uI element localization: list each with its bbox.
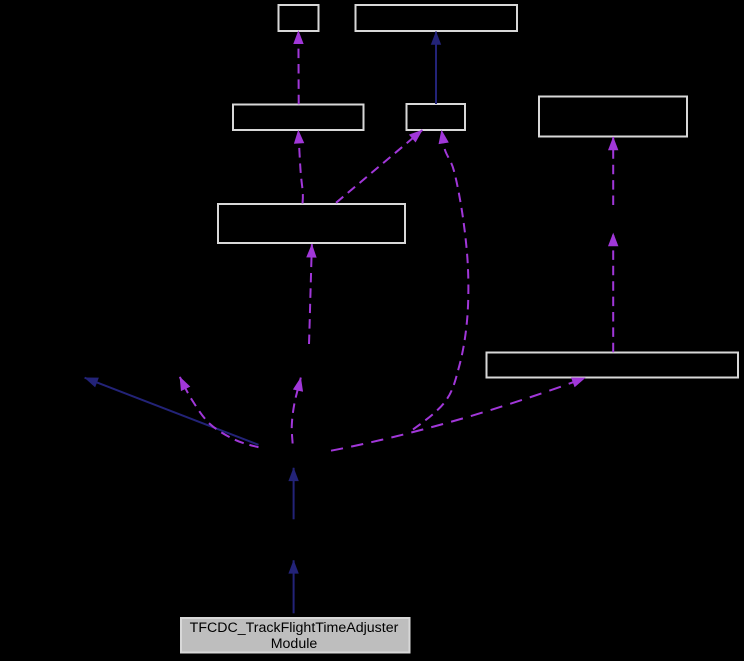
node box 3 (mid left) [233, 105, 364, 131]
edge E2: solid box4 -> box2 [435, 32, 437, 105]
node box 4 (mid small) [407, 104, 466, 130]
edge E3: dashed box6 -> box3 [298, 130, 303, 203]
node box 1 (top small) [279, 5, 319, 31]
svg-text:Module: Module [271, 636, 318, 652]
edge E9: solid junction -> upper-left arrow [85, 378, 259, 445]
node box 8: TFCDC_TrackFlightTimeAdjusterModule (filled) [181, 618, 410, 653]
node box 2 (top wide) [356, 5, 518, 31]
node box 7 (lower right wide) [487, 353, 739, 378]
edge E12 lower: solid box8 -> mid arrow [293, 560, 295, 613]
node box 5 (right, two-line) [539, 97, 687, 137]
edge E6 upper: dashed label -> box5 [612, 137, 614, 205]
edge E1: dashed box3 -> box1 [297, 31, 299, 105]
edge E12 upper: solid label -> arrow [293, 468, 295, 520]
edge E6 lower: dashed box7 -> mid arrow [612, 233, 614, 352]
edge E7: dashed junction -> box7 bottom [331, 378, 585, 451]
svg-text:TFCDC_TrackFlightTimeAdjuster: TFCDC_TrackFlightTimeAdjuster [190, 620, 399, 636]
node box 6 (center, two-line) [218, 204, 405, 243]
edge E10: dashed junction -> left arrow [180, 377, 259, 447]
edge E11 lower: dashed junction -> mid arrow [292, 378, 301, 444]
edge E5: dashed junction -> box4 (long right bow) [413, 130, 468, 429]
edge E4: dashed box6 -> box4 (diagonal) [336, 130, 422, 203]
edge E11 upper: dashed label -> box6 [309, 244, 312, 344]
